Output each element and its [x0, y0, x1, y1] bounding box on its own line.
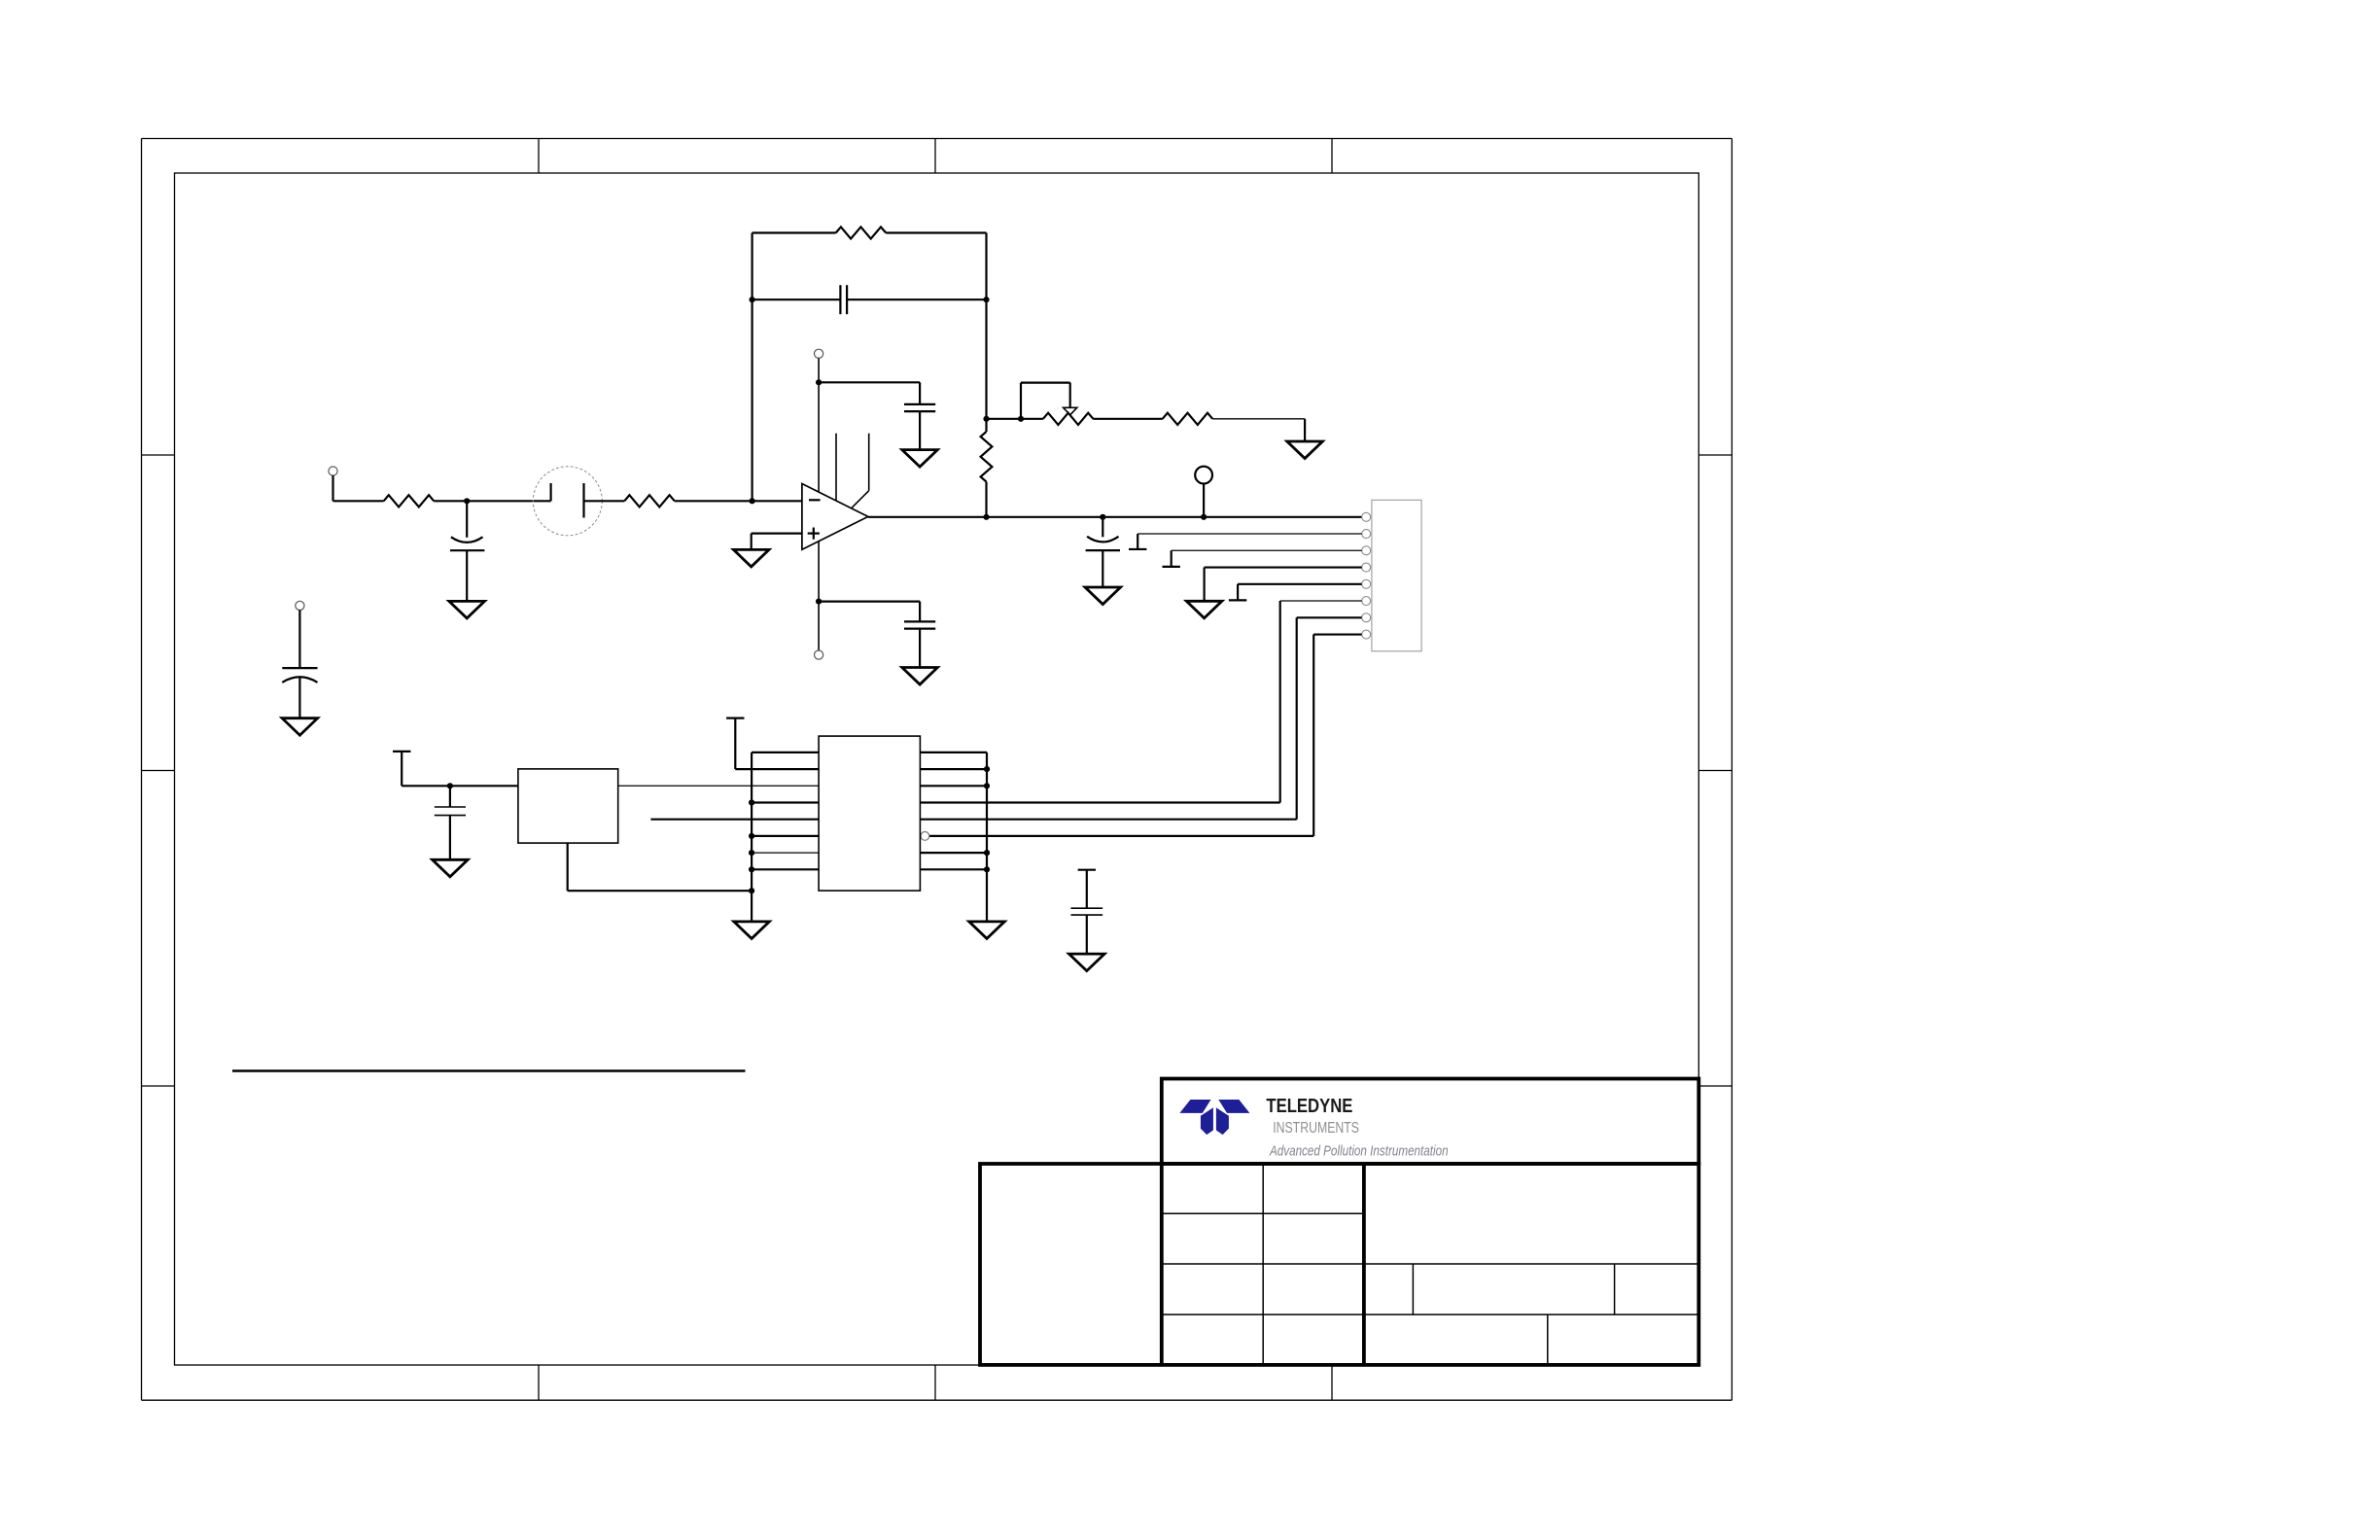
svg-text:TELEDYNE: TELEDYNE: [1266, 1095, 1352, 1117]
svg-text:Advanced Pollution Instrumenta: Advanced Pollution Instrumentation: [1269, 1142, 1448, 1159]
svg-text:INSTRUMENTS: INSTRUMENTS: [1273, 1120, 1359, 1137]
